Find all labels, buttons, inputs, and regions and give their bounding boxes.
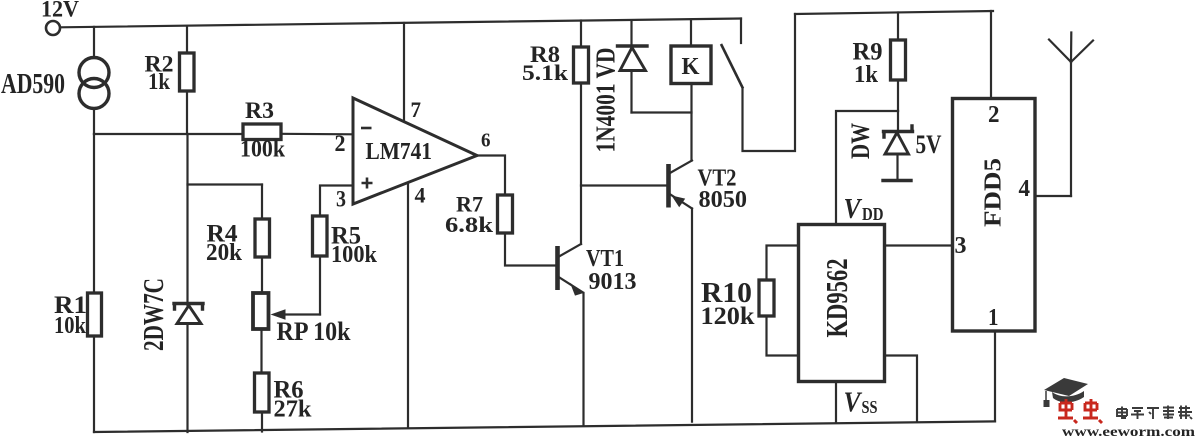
wire RP to R6: [260, 329, 262, 373]
svg-text:12V: 12V: [41, 0, 79, 22]
VT2 label: [698, 166, 748, 214]
VSS label: [844, 387, 878, 419]
relay K: [671, 20, 711, 84]
resistor R1: [88, 134, 102, 432]
svg-text:120k: 120k: [701, 303, 755, 330]
svg-text:6: 6: [481, 130, 491, 152]
wire pin 4 to ground rail: [407, 183, 409, 427]
svg-text:RP 10k: RP 10k: [277, 317, 351, 346]
svg-text:V: V: [844, 193, 863, 225]
resistor R8: [574, 21, 589, 84]
transistor VT2 8050: [669, 161, 693, 422]
svg-text:7: 7: [411, 97, 422, 122]
wire pin 6 to R7: [477, 156, 505, 196]
svg-text:8050: 8050: [699, 187, 748, 213]
wire FDD5 pin1 to ground rail: [994, 331, 996, 421]
transistor VT1 9013: [558, 244, 584, 426]
watermark site name characters: [1117, 406, 1192, 420]
12V terminal: [46, 21, 60, 35]
zener diode 2DW7C: [174, 134, 203, 432]
wire AD590 top: [93, 27, 95, 58]
wire R8 bottom to VT2 base node and VT1 collector: [580, 83, 582, 244]
VDD label: [844, 193, 884, 225]
wire KD9562 pin3 to FDD5: [885, 244, 953, 246]
svg-text:100k: 100k: [331, 242, 378, 268]
wire op-amp pin3 to R5: [320, 186, 353, 217]
wire R9 node to VDD: [836, 111, 898, 224]
R2 label: [145, 52, 174, 95]
wire FDD5 pin4 to antenna: [1035, 195, 1071, 197]
resistor R4: [255, 185, 270, 294]
R4 label: [206, 221, 243, 267]
resistor R3: [243, 124, 353, 140]
potentiometer RP: [253, 293, 320, 329]
R8 label: [522, 42, 569, 85]
wire KD9562 right pin to ground rail: [885, 356, 917, 422]
svg-text:2: 2: [335, 131, 346, 156]
R1 label: [54, 292, 87, 339]
op-amp U1 LM741: [353, 98, 477, 204]
wire FDD5 pin2 to rail: [990, 11, 992, 99]
svg-text:3: 3: [955, 233, 967, 259]
svg-text:DW: DW: [846, 123, 875, 159]
VT1 label: [586, 246, 637, 295]
wire bottom ground rail: [94, 421, 995, 432]
wire VT2 base: [581, 184, 666, 186]
svg-text:KD9562: KD9562: [819, 259, 854, 338]
svg-text:1N4001 VD: 1N4001 VD: [591, 48, 621, 153]
svg-text:1: 1: [988, 305, 999, 331]
wire VSS to ground rail: [835, 382, 837, 423]
watermark graduation cap logo: [1044, 378, 1089, 407]
svg-text:R3: R3: [245, 98, 274, 123]
wire VD bottom to K bottom: [632, 111, 692, 113]
IC FDD5: [953, 99, 1036, 332]
R9 label: [853, 39, 883, 89]
resistor R10: [759, 246, 799, 356]
svg-text:10k: 10k: [54, 313, 87, 339]
R5 label: [331, 223, 378, 269]
resistor R2: [180, 26, 195, 134]
wire second top rail: [795, 11, 993, 14]
wire pin 7 to top rail: [403, 23, 405, 121]
svg-text:K: K: [682, 54, 700, 80]
svg-text:6.8k: 6.8k: [445, 212, 494, 237]
antenna: [1049, 33, 1093, 197]
svg-text:1k: 1k: [854, 62, 879, 88]
svg-text:1k: 1k: [148, 69, 170, 94]
svg-text:20k: 20k: [206, 240, 243, 266]
svg-text:9013: 9013: [589, 269, 637, 295]
svg-text:SS: SS: [862, 397, 878, 417]
resistor R9: [891, 13, 906, 112]
svg-text:DD: DD: [862, 204, 884, 224]
zener diode DW: [883, 111, 913, 181]
svg-text:3: 3: [336, 187, 346, 212]
svg-text:5V: 5V: [916, 130, 942, 159]
IC KD9562: [799, 225, 885, 382]
R10 label: [701, 278, 755, 330]
R6 label: [274, 377, 313, 423]
wire K bottom to VT2 collector: [690, 84, 692, 161]
svg-text:4: 4: [415, 183, 426, 208]
svg-text:5.1k: 5.1k: [522, 60, 569, 85]
wire switch to second rail: [743, 14, 796, 151]
wire AD590 bottom to node A: [93, 109, 95, 135]
svg-text:FDD5: FDD5: [981, 158, 1007, 227]
svg-text:100k: 100k: [240, 137, 286, 163]
R7 label: [445, 192, 494, 238]
relay switch contact: [721, 19, 743, 89]
resistor R7: [498, 195, 555, 266]
R3 label: [240, 98, 286, 163]
wire top supply rail: [61, 19, 742, 28]
svg-text:27k: 27k: [274, 397, 313, 423]
watermark chong chong red characters: [1058, 399, 1102, 423]
svg-text:4: 4: [1019, 176, 1031, 202]
current source AD590: [79, 58, 109, 109]
svg-text:LM741: LM741: [366, 139, 433, 165]
wire node A to R3: [94, 133, 243, 135]
wire node A branch to R4: [188, 183, 263, 185]
svg-text:2DW7C: 2DW7C: [139, 278, 170, 351]
svg-text:V: V: [844, 387, 863, 419]
svg-text:2: 2: [988, 102, 1000, 128]
diode VD 1N4001: [618, 21, 648, 113]
svg-text:www.eeworm.com: www.eeworm.com: [1062, 424, 1196, 437]
svg-text:AD590: AD590: [1, 68, 65, 100]
resistor R5: [313, 216, 328, 315]
resistor R6: [255, 373, 270, 432]
